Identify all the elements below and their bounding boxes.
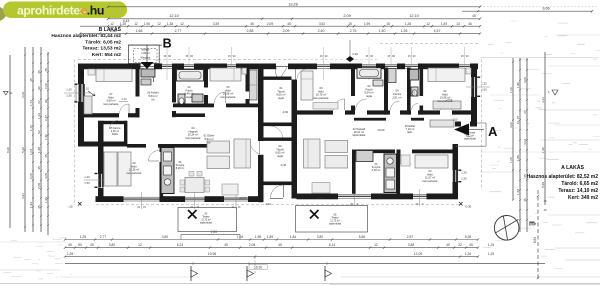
exterior right wall lower — [453, 144, 459, 197]
svg-text:2,88: 2,88 — [247, 29, 254, 33]
svg-text:lapburkolat: lapburkolat — [200, 222, 212, 225]
svg-text:1,50: 1,50 — [541, 147, 545, 153]
room label 02 Furdo left — [147, 91, 159, 102]
svg-text:1,64: 1,64 — [29, 202, 33, 208]
svg-text:8,84: 8,84 — [533, 237, 537, 243]
svg-text:2,77: 2,77 — [175, 29, 182, 33]
svg-text:1,04: 1,04 — [29, 149, 33, 155]
scan mark left edge — [0, 7, 7, 21]
svg-text:45: 45 — [29, 78, 33, 82]
hall cabinet left unit entrance — [141, 69, 155, 85]
roof dashed line right wing — [380, 43, 478, 45]
svg-text:32: 32 — [458, 243, 462, 247]
svg-text:1,50: 1,50 — [481, 88, 487, 92]
svg-text:1,50: 1,50 — [44, 134, 48, 140]
level cross mark terrace B — [188, 210, 197, 219]
survey flag at x=191 — [191, 262, 198, 282]
north letter E — [528, 221, 537, 226]
window in right wall — [466, 77, 490, 98]
svg-text:3,80: 3,80 — [162, 235, 169, 239]
partition right unit x385 — [384, 68, 388, 115]
entrance arrow A — [453, 118, 484, 135]
svg-text:40: 40 — [543, 208, 547, 212]
svg-text:5,29: 5,29 — [541, 182, 545, 188]
exterior left wall upper — [78, 64, 84, 147]
bathtub left unit — [177, 70, 204, 82]
svg-text:4,43: 4,43 — [123, 19, 130, 23]
dimension chain top row4 medium segments — [79, 29, 481, 35]
dimension line top right 9,66 — [462, 6, 593, 18]
svg-text:.hu: .hu — [87, 3, 104, 17]
svg-text:2,06 m²: 2,06 m² — [111, 130, 120, 133]
svg-text:1,29: 1,29 — [67, 252, 74, 256]
door arc right unit bedroom04 — [401, 154, 412, 165]
svg-text:19,95: 19,95 — [208, 252, 217, 256]
svg-text:É: É — [528, 221, 537, 226]
svg-text:12,10: 12,10 — [169, 14, 179, 18]
svg-text:1,84: 1,84 — [290, 235, 297, 239]
svg-text:12: 12 — [110, 22, 114, 26]
partition left unit x247 — [246, 68, 250, 107]
svg-text:Tároló: 6,05 m2: Tároló: 6,05 m2 — [85, 39, 121, 45]
svg-text:1,50: 1,50 — [84, 181, 90, 185]
sub-dimension bracket 2,50 — [181, 233, 240, 235]
survey flag at x=247 — [247, 262, 254, 282]
bed room03 left — [210, 68, 247, 81]
door arc room09 — [149, 151, 160, 162]
svg-text:3,39: 3,39 — [213, 22, 219, 26]
middle strip west wall door — [250, 141, 264, 155]
svg-text:Terasz: 13,53 m2: Terasz: 13,53 m2 — [82, 46, 121, 52]
svg-text:1,85: 1,85 — [516, 155, 520, 161]
dimension chain top row2 12,10 / 2,09 / 12,10 — [107, 14, 481, 20]
level mark right — [548, 90, 558, 95]
entrance arrow B — [141, 45, 154, 69]
washer right unit — [410, 70, 419, 81]
partition right unit x421 — [420, 68, 424, 115]
dimension chains right side — [509, 52, 545, 232]
canopy B outer box — [129, 45, 160, 64]
svg-text:A: A — [488, 124, 497, 139]
kitchen counter right unit — [356, 151, 397, 193]
room label 04 Nappali left — [186, 126, 201, 140]
bottom long reference line 16,30 — [65, 257, 545, 275]
svg-text:-,10: -,10 — [68, 205, 73, 209]
svg-text:40: 40 — [446, 243, 450, 247]
exterior bottom wall left unit — [96, 196, 264, 202]
wc left unit — [178, 94, 185, 104]
bed right unit lower — [401, 155, 448, 168]
door dim 2,10 room07 — [119, 97, 128, 102]
svg-text:12: 12 — [134, 22, 138, 26]
middle strip east wall door — [296, 69, 308, 80]
svg-text:1,80: 1,80 — [516, 82, 520, 88]
svg-text:-0,30: -0,30 — [465, 205, 472, 209]
svg-text:B: B — [163, 37, 172, 51]
room label konyha right — [372, 163, 381, 172]
svg-text:3,00: 3,00 — [523, 77, 527, 83]
svg-text:45: 45 — [44, 68, 48, 72]
bed room07 — [88, 69, 132, 82]
svg-text:A LAKÁS: A LAKÁS — [561, 164, 584, 171]
svg-text:11,72 m²: 11,72 m² — [330, 220, 340, 223]
svg-text:2,09: 2,09 — [343, 14, 350, 18]
partition right unit x352 — [351, 68, 355, 112]
wc right unit — [411, 87, 418, 96]
partition left unit x173 — [172, 68, 176, 118]
svg-text:+0,00: +0,00 — [316, 196, 324, 200]
dimension chain bottom row2 — [64, 243, 479, 249]
partition left unit x137 — [136, 68, 140, 118]
bed right unit room02 — [428, 68, 471, 82]
svg-text:16, 27: 16, 27 — [516, 115, 520, 124]
svg-text:11,72 m²: 11,72 m² — [201, 219, 211, 222]
dimension chain bottom row1 — [64, 230, 479, 241]
room label 05 Kamra left — [110, 127, 121, 136]
corridor wall left unit y114 west part — [78, 113, 140, 117]
svg-text:lapburkolat: lapburkolat — [464, 137, 476, 140]
dining table right unit — [325, 141, 348, 169]
svg-text:45: 45 — [68, 243, 72, 247]
svg-text:1,00: 1,00 — [453, 118, 458, 121]
wardrobe strip room03 — [250, 70, 258, 100]
dimension chain bottom row3 19,95 / 12,05 — [64, 243, 495, 258]
room label 01 Nappali right — [353, 127, 366, 137]
right entrance jog wall — [455, 122, 477, 127]
middle strip west wall — [258, 64, 264, 203]
door arc kamra — [110, 121, 119, 130]
svg-text:45: 45 — [44, 154, 48, 158]
entrance door B in top wall — [141, 66, 155, 82]
door arc right unit furdo — [356, 99, 367, 110]
roof overhang dashed line right — [481, 60, 483, 191]
svg-text:3,52: 3,52 — [319, 22, 325, 26]
middle strip partition y122 — [264, 123, 292, 140]
svg-text:3,80: 3,80 — [317, 235, 324, 239]
svg-text:aprohirdetes: aprohirdetes — [17, 3, 87, 17]
section letter A — [488, 124, 497, 139]
svg-text:±0,00: ±0,00 — [378, 128, 385, 132]
pantry shelves right unit — [388, 69, 396, 83]
svg-text:Hasznos alapterület: 82,52 m2: Hasznos alapterület: 82,52 m2 — [527, 174, 599, 180]
roof overhang dashed line bottom — [96, 204, 460, 206]
svg-text:3,06: 3,06 — [21, 92, 25, 98]
exterior top wall — [78, 64, 478, 70]
svg-text:2,50: 2,50 — [211, 230, 218, 234]
middle strip partition y138 — [264, 138, 292, 141]
sofa left unit — [234, 139, 251, 168]
dimension chain top row3 small segments — [80, 19, 481, 27]
hall cabinet right unit — [430, 120, 454, 127]
info text B LAKAS — [51, 26, 121, 58]
logo pill aprohirdetes.hu — [3, 2, 127, 19]
svg-text:3,80: 3,80 — [109, 243, 116, 247]
svg-text:1,98: 1,98 — [37, 147, 41, 153]
vertical dimension bottom right 8,84 — [533, 190, 547, 281]
middle strip partition y181 — [264, 182, 292, 186]
svg-text:45: 45 — [287, 22, 291, 26]
svg-text:3,88: 3,88 — [408, 243, 415, 247]
svg-text:2,77: 2,77 — [100, 235, 107, 239]
svg-text:8,29 m²: 8,29 m² — [176, 167, 185, 170]
svg-text:Konyha: Konyha — [372, 166, 381, 169]
kitchen counter left unit — [161, 148, 174, 194]
door arc right unit wc — [412, 104, 419, 111]
bed right unit room03 — [301, 71, 338, 109]
svg-text:4,30: 4,30 — [352, 52, 358, 56]
svg-text:1,90: 1,90 — [144, 22, 150, 26]
corridor wall right unit y111 — [297, 110, 472, 114]
svg-text:1,20: 1,20 — [84, 175, 90, 179]
svg-text:1,73: 1,73 — [29, 100, 33, 106]
door arc right unit halo02 — [441, 99, 452, 110]
section letter B — [129, 37, 172, 51]
svg-text:2,09: 2,09 — [283, 29, 290, 33]
window in left wall — [64, 84, 95, 103]
svg-text:1,50: 1,50 — [379, 29, 386, 33]
room label wc right — [412, 92, 416, 98]
svg-text:45: 45 — [37, 70, 41, 74]
corridor wall left unit y105 east part — [173, 104, 258, 108]
room label 09 Halo lower left — [127, 161, 142, 175]
svg-text:1,00: 1,00 — [509, 87, 513, 93]
svg-text:főbejárat: főbejárat — [141, 56, 151, 59]
room label 03 Halo left — [221, 85, 236, 99]
survey flag at x=325 — [325, 262, 332, 282]
svg-text:12: 12 — [157, 22, 161, 26]
svg-text:05 Kamra: 05 Kamra — [110, 127, 121, 130]
svg-text:1,68: 1,68 — [136, 29, 143, 33]
door arc right unit halo03 — [334, 99, 345, 110]
bed room09 lower left — [104, 152, 131, 186]
room label 00 Tarolo lower middle — [275, 144, 286, 167]
svg-text:2,57: 2,57 — [407, 235, 414, 239]
partition right unit x408 — [407, 68, 411, 115]
svg-text:4,03: 4,03 — [523, 139, 527, 145]
svg-text:3,05: 3,05 — [44, 173, 48, 179]
svg-text:lapburkolat: lapburkolat — [329, 223, 341, 226]
svg-text:15: 15 — [386, 22, 390, 26]
svg-text:80: 80 — [78, 243, 82, 247]
roof overhang dashed line left — [74, 60, 76, 206]
dining table left unit — [207, 141, 230, 169]
svg-text:1,99: 1,99 — [364, 22, 370, 26]
window in left lower wall — [84, 173, 104, 188]
svg-text:45: 45 — [472, 14, 476, 18]
svg-text:1,25: 1,25 — [488, 252, 494, 256]
room label terasz A entry — [464, 132, 476, 141]
svg-text:1,25: 1,25 — [461, 171, 467, 175]
svg-text:1,38: 1,38 — [167, 22, 173, 26]
door arc A entrance — [462, 127, 472, 137]
svg-text:9,66: 9,66 — [542, 6, 549, 10]
svg-text:1,50: 1,50 — [66, 94, 72, 98]
svg-text:2,75: 2,75 — [350, 29, 357, 33]
exterior right wall upper — [471, 64, 477, 127]
svg-text:4,57: 4,57 — [434, 29, 441, 33]
room label 06 Konyha left — [176, 161, 185, 170]
svg-text:45: 45 — [543, 199, 547, 203]
svg-text:PADL: PADL — [112, 133, 119, 136]
dimension chains left side — [6, 47, 49, 235]
wardrobe right unit room02 — [433, 101, 461, 109]
svg-text:Konyha: Konyha — [176, 164, 185, 167]
svg-text:19,28: 19,28 — [288, 2, 298, 6]
svg-text:2,08: 2,08 — [37, 183, 41, 189]
room label halo lower right — [423, 169, 438, 183]
room label 02 Halo right2 — [438, 89, 453, 103]
exterior left wall lower — [98, 121, 104, 202]
svg-text:45: 45 — [224, 243, 228, 247]
svg-text:46: 46 — [468, 22, 472, 26]
dimension chain top row1 overall 19,28 — [107, 2, 598, 8]
door arc corridor left — [215, 92, 226, 103]
svg-text:1,50: 1,50 — [461, 177, 467, 181]
partition left unit y146 lower — [127, 144, 210, 148]
svg-text:2,00: 2,00 — [44, 83, 48, 89]
svg-text:45: 45 — [469, 243, 473, 247]
dining set by window left unit — [180, 172, 210, 193]
level cross mark terrace A — [310, 210, 319, 219]
svg-text:1,80 m²: 1,80 m² — [141, 52, 150, 55]
room label 04 Kamra right — [392, 89, 401, 100]
svg-text:2,40: 2,40 — [318, 29, 325, 33]
svg-text:13: 13 — [456, 22, 460, 26]
wardrobe room07 — [84, 96, 92, 114]
svg-text:52: 52 — [37, 130, 41, 134]
corridor lower stub walls right unit — [354, 118, 424, 121]
terrace A dashed — [296, 206, 368, 233]
svg-text:1,26: 1,26 — [401, 29, 408, 33]
room label eloter right — [378, 124, 416, 134]
svg-text:3,21: 3,21 — [21, 193, 25, 199]
sofa right unit — [304, 139, 321, 168]
svg-text:Terasz: Terasz — [331, 217, 339, 220]
svg-text:1,98: 1,98 — [255, 235, 262, 239]
svg-text:12: 12 — [180, 22, 184, 26]
strip door arc to terrace — [270, 185, 284, 199]
room label 01 Eloter left — [184, 85, 214, 144]
level mark left — [4, 91, 13, 95]
svg-text:Kert: 349 m2: Kert: 349 m2 — [568, 195, 598, 201]
svg-text:Kert: 554 m2: Kert: 554 m2 — [92, 52, 122, 58]
left jog wall — [78, 142, 127, 147]
svg-text:12: 12 — [138, 243, 142, 247]
svg-text:1,00: 1,00 — [509, 157, 513, 163]
svg-text:6,23: 6,23 — [177, 243, 184, 247]
room label 02 Furdo right — [364, 84, 373, 98]
corridor wall stub y114 furdo — [175, 113, 205, 117]
svg-text:1,26: 1,26 — [465, 252, 471, 256]
svg-text:Tároló: 6,65 m2: Tároló: 6,65 m2 — [561, 181, 598, 187]
washbasin left unit — [192, 94, 203, 102]
svg-text:1,49: 1,49 — [441, 22, 447, 26]
kamra walls left unit — [98, 121, 127, 147]
svg-text:45: 45 — [37, 166, 41, 170]
svg-text:5,86: 5,86 — [359, 235, 366, 239]
basin right unit — [373, 80, 383, 86]
svg-text:Terasz: 14,10 m2: Terasz: 14,10 m2 — [558, 188, 598, 194]
room label 07 Halo — [104, 92, 119, 106]
door arc room07 — [120, 104, 130, 114]
svg-text:2,09: 2,09 — [267, 22, 273, 26]
middle strip partition y77 — [264, 77, 292, 80]
compass circle — [494, 216, 519, 241]
svg-text:12,05: 12,05 — [414, 252, 423, 256]
storage door arc middle strip — [276, 66, 288, 80]
svg-text:WC: WC — [412, 95, 416, 98]
svg-text:45: 45 — [523, 198, 527, 202]
svg-text:5,28: 5,28 — [465, 235, 472, 239]
exterior bottom wall right unit — [297, 194, 459, 200]
kitchen wall right unit — [352, 150, 395, 194]
door arc right unit kamra — [391, 101, 400, 110]
ridge diamond mark — [346, 40, 358, 62]
svg-text:1,70: 1,70 — [29, 125, 33, 131]
bottom wall openings left unit — [124, 192, 249, 209]
svg-text:8,30: 8,30 — [6, 147, 10, 153]
bottom wall openings right unit — [316, 189, 426, 206]
room label 03 Halo right — [314, 86, 329, 100]
svg-text:1,54: 1,54 — [516, 189, 520, 195]
svg-text:1,89: 1,89 — [267, 235, 274, 239]
terrace B dashed — [178, 208, 237, 232]
svg-text:5,32: 5,32 — [21, 147, 25, 153]
svg-text:4,09 m²: 4,09 m² — [372, 169, 381, 172]
bathtub right unit — [357, 68, 381, 79]
window in right lower wall — [453, 170, 467, 183]
armchair right unit — [312, 183, 330, 194]
svg-text:±0,00: ±0,00 — [239, 197, 247, 201]
info text A LAKAS — [527, 164, 599, 201]
partition left unit x161 lower — [160, 146, 164, 197]
svg-text:1,25: 1,25 — [80, 235, 87, 239]
svg-text:8,14: 8,14 — [329, 243, 336, 247]
bedroom wall right unit y151 — [397, 150, 455, 154]
svg-text:45: 45 — [278, 243, 282, 247]
svg-text:1,34: 1,34 — [37, 113, 41, 119]
bedroom wall right unit x396 — [397, 150, 401, 194]
svg-text:1,25: 1,25 — [481, 82, 487, 86]
armchair left unit — [222, 184, 238, 195]
svg-text:1,20: 1,20 — [66, 88, 72, 92]
svg-text:2,08: 2,08 — [249, 243, 256, 247]
top wall windows — [162, 47, 470, 80]
roof overhang dashed line top — [78, 59, 295, 61]
svg-text:12,10: 12,10 — [409, 14, 419, 18]
svg-text:12: 12 — [426, 22, 430, 26]
svg-text:45: 45 — [37, 205, 41, 209]
svg-text:Hasznos alapterület: 82,44 m2: Hasznos alapterület: 82,44 m2 — [51, 33, 121, 39]
svg-text:45: 45 — [90, 243, 94, 247]
svg-text:Terasz: Terasz — [202, 216, 210, 219]
svg-text:3,00: 3,00 — [509, 122, 513, 128]
terrace A entry box — [456, 123, 486, 146]
middle strip east wall — [292, 64, 298, 199]
svg-text:1,93: 1,93 — [44, 197, 48, 203]
svg-text:27: 27 — [37, 100, 41, 104]
svg-text:12: 12 — [374, 243, 378, 247]
svg-text:90: 90 — [37, 86, 41, 90]
svg-text:2,17 m²: 2,17 m² — [466, 135, 474, 138]
svg-text:B LAKÁS: B LAKÁS — [99, 26, 122, 33]
svg-text:45: 45 — [250, 22, 254, 26]
room label 01 Tarolo upper middle — [276, 86, 288, 114]
svg-text:3,41: 3,41 — [541, 97, 545, 103]
svg-text:2,00: 2,00 — [29, 173, 33, 179]
svg-text:1,26: 1,26 — [405, 22, 411, 26]
svg-text:1,25: 1,25 — [488, 243, 494, 247]
